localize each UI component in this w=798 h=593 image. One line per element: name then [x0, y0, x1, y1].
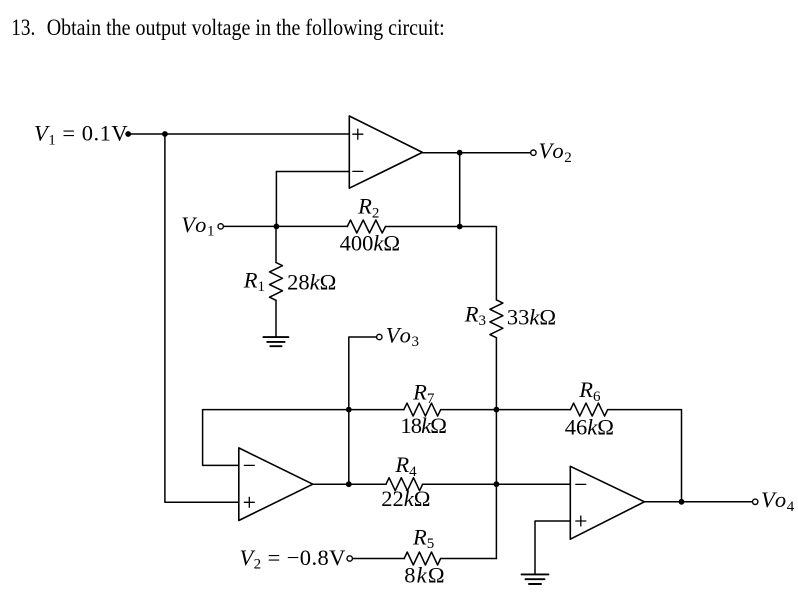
wire U3 + input to ground — [535, 521, 570, 574]
svg-text:28kΩ: 28kΩ — [287, 269, 336, 294]
svg-text:400kΩ: 400kΩ — [340, 230, 400, 255]
wire R4 right to U3 - input — [423, 483, 571, 485]
wire R1 to ground — [275, 300, 277, 337]
node junction U2 output — [346, 481, 352, 487]
wire U3 output to Vo4 — [644, 501, 755, 503]
wire Vo2 node down to R2 node — [459, 153, 461, 227]
wire node to R2 left — [276, 225, 347, 227]
svg-text:13.: 13. — [11, 15, 35, 40]
svg-text:Vo2: Vo2 — [539, 138, 572, 166]
node junction Vo4 — [679, 499, 685, 505]
terminal Vo4 open circle — [753, 499, 758, 504]
resistor R1 — [270, 263, 283, 301]
node junction Vo1 — [274, 224, 280, 230]
op-amp U3 — [570, 466, 644, 539]
op-amp U3 minus sign — [576, 483, 586, 485]
node junction R2-R3 — [457, 224, 463, 230]
wire vertical Vo3 node to U2 output node — [348, 410, 350, 485]
resistor R3 — [490, 300, 503, 338]
op-amp U1 minus sign — [353, 170, 363, 172]
svg-text:46kΩ: 46kΩ — [565, 415, 614, 440]
svg-text:R1: R1 — [243, 267, 265, 295]
wire Vo3 terminal — [349, 337, 380, 410]
wire V1 to U1 + input — [128, 133, 349, 135]
svg-text:Vo1: Vo1 — [181, 212, 214, 240]
node V1 terminal dot — [125, 131, 131, 137]
wire R3 bottom down to R5 corner — [495, 338, 497, 559]
svg-text:8kΩ: 8kΩ — [404, 563, 446, 588]
svg-text:R2: R2 — [357, 194, 379, 222]
wire Vo1 terminal to node — [221, 225, 277, 227]
node junction R7-R3 — [494, 407, 500, 413]
op-amp U1 — [349, 116, 422, 188]
terminal Vo1 open circle — [218, 224, 223, 229]
resistor R6 — [571, 403, 608, 416]
resistor R4 — [386, 478, 423, 491]
op-amp U2 — [239, 448, 313, 521]
svg-text:Obtain the output voltage in t: Obtain the output voltage in the followi… — [47, 15, 445, 40]
ground at U3 + input — [522, 574, 549, 584]
svg-text:22kΩ: 22kΩ — [381, 486, 430, 511]
resistor R7 — [404, 403, 441, 416]
terminal Vo2 open circle — [531, 150, 536, 155]
op-amp U2 minus sign — [244, 464, 254, 466]
terminal Vo3 open circle — [377, 334, 382, 339]
svg-text:V2 = −0.8V: V2 = −0.8V — [240, 545, 346, 573]
wire R5 right to corner — [441, 558, 497, 560]
svg-text:18kΩ: 18kΩ — [400, 413, 446, 438]
svg-text:R3: R3 — [464, 301, 486, 329]
node junction R4 — [494, 481, 500, 487]
svg-text:R6: R6 — [578, 377, 601, 405]
wire R6 right to corner down to Vo4 node — [608, 410, 682, 502]
op-amp U1 plus sign — [353, 129, 363, 139]
wire U2 output to R4 — [313, 483, 386, 485]
svg-text:33kΩ: 33kΩ — [507, 305, 556, 330]
svg-text:R5: R5 — [412, 524, 434, 552]
svg-text:Vo3: Vo3 — [386, 322, 419, 350]
resistor R2 — [347, 220, 385, 233]
wire left segment of R7 line — [203, 409, 404, 411]
wire Vo1 node down to R1 — [275, 226, 277, 262]
node junction V1 — [162, 131, 168, 137]
node junction Vo2 — [457, 150, 463, 156]
resistor R5 — [404, 552, 440, 565]
wire U2 - input path — [203, 410, 239, 466]
svg-text:R7: R7 — [412, 379, 435, 407]
wire V1 junction down to U2 + input — [165, 134, 239, 502]
svg-text:Vo4: Vo4 — [761, 487, 795, 515]
wire V2 to R5 — [350, 558, 405, 560]
op-amp U2 plus sign — [244, 497, 254, 507]
wire U1 output to Vo2 — [422, 152, 533, 154]
wire vertical from U1 - input to Vo1 node — [275, 172, 277, 227]
op-amp U3 plus sign — [576, 516, 586, 526]
wire R2 right to corner — [386, 227, 497, 300]
svg-text:V1 = 0.1V: V1 = 0.1V — [34, 121, 128, 149]
ground at R1 — [263, 337, 288, 346]
wire U1 - input horizontal — [276, 171, 349, 173]
terminal V2 open circle — [347, 556, 352, 561]
wire R7 right to R6 left — [441, 409, 571, 411]
node junction Vo3-R7 — [346, 407, 352, 413]
svg-text:R4: R4 — [394, 452, 417, 480]
